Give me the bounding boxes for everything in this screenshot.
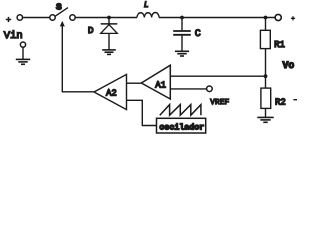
wire R1 to R2 bbox=[265, 49, 267, 89]
wire junction to R1 bbox=[265, 18, 267, 31]
svg-text:VREF: VREF bbox=[210, 99, 229, 107]
node R1 junction bbox=[264, 16, 268, 20]
node diode junction bbox=[107, 16, 111, 20]
svg-text:A2: A2 bbox=[106, 89, 117, 99]
node Vin+ polarity plus bbox=[6, 17, 11, 22]
ground (diode) bbox=[102, 50, 116, 55]
resistor R1 bbox=[260, 30, 270, 48]
node Vo divider junction bbox=[264, 74, 268, 78]
diode D triangle bbox=[101, 25, 118, 34]
wire A2 output to switch control bbox=[62, 26, 94, 92]
svg-text:A1: A1 bbox=[155, 80, 166, 90]
node Vo- polarity minus bbox=[293, 99, 297, 101]
terminal Vo+ bbox=[275, 14, 281, 20]
svg-text:L: L bbox=[144, 2, 149, 10]
node Vo+ polarity plus bbox=[291, 16, 295, 20]
op-amp A2 bbox=[94, 74, 127, 109]
wire inductor to right terminal bbox=[159, 17, 275, 19]
inductor L bbox=[137, 13, 159, 18]
ground (capacitor) bbox=[175, 51, 189, 56]
svg-text:C: C bbox=[195, 29, 201, 40]
resistor R2 bbox=[261, 88, 271, 108]
wire Vin+ to switch bbox=[23, 17, 50, 19]
sawtooth waveform symbol bbox=[160, 105, 201, 116]
node capacitor junction bbox=[180, 16, 184, 20]
wire junction to diode bbox=[108, 18, 110, 24]
capacitor C top plate bbox=[173, 30, 191, 32]
wire diode to ground bbox=[108, 33, 110, 49]
diode D cathode bar bbox=[101, 23, 118, 25]
wire A1 output to A2 top input bbox=[127, 82, 142, 84]
wire R2 to ground bbox=[265, 108, 267, 117]
wire A2 bottom input to oscillator bbox=[127, 100, 157, 125]
svg-text:R1: R1 bbox=[274, 40, 285, 50]
svg-text:R2: R2 bbox=[275, 97, 286, 107]
wire capacitor to ground bbox=[181, 36, 183, 51]
arrowhead switch control bbox=[60, 21, 65, 27]
ground (Vin) bbox=[16, 59, 30, 64]
svg-text:Vo: Vo bbox=[283, 60, 295, 71]
svg-text:D: D bbox=[88, 25, 94, 36]
svg-text:Vin: Vin bbox=[4, 30, 23, 42]
svg-text:S: S bbox=[56, 1, 62, 12]
switch S right contact bbox=[70, 15, 75, 20]
ground (R2) bbox=[257, 117, 273, 122]
wire switch to inductor bbox=[75, 17, 137, 19]
wire Vo junction to A1 top input bbox=[170, 75, 265, 77]
oscillator box bbox=[157, 118, 206, 133]
terminal Vin- bbox=[20, 42, 25, 47]
capacitor C bottom plate bbox=[173, 34, 191, 36]
wire A1 bottom input to VREF bbox=[170, 88, 206, 90]
terminal Vin+ bbox=[17, 15, 22, 20]
svg-text:oscilador: oscilador bbox=[159, 122, 204, 132]
op-amp A1 bbox=[141, 65, 170, 99]
terminal VREF bbox=[207, 86, 213, 92]
wire Vin- to ground bbox=[22, 47, 24, 59]
switch S blade bbox=[55, 8, 68, 17]
wire junction to capacitor bbox=[181, 18, 183, 31]
switch S left contact bbox=[50, 15, 55, 20]
